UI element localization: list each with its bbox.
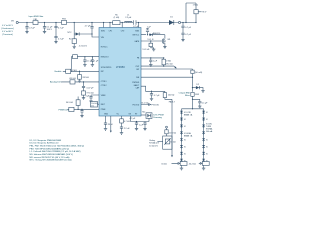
svg-text:PGOOD: PGOOD [152,105,160,107]
svg-text:10 kΩ: 10 kΩ [170,142,176,144]
svg-text:4 V to 60 V: 4 V to 60 V [2,24,13,27]
svg-text:4.7 µF: 4.7 µF [29,28,35,30]
svg-text:BEAM 1 A: BEAM 1 A [184,134,193,137]
svg-text:1 MΩ: 1 MΩ [166,60,171,62]
svg-text:PWM: PWM [101,109,106,111]
snubber network [186,3,196,23]
capacitor C1 4.7uF [26,23,28,31]
resistor R11 [82,91,86,95]
svg-text:0.47 µF: 0.47 µF [87,88,95,90]
svg-text:10 kΩ 1%: 10 kΩ 1% [149,145,158,147]
svg-text:FB1, FB2: Würth Elektronik 742: FB1, FB2: Würth Elektronik 74279220361 (… [30,145,85,148]
resistor R9 comp [121,116,123,131]
wire EN/UVLO [71,57,99,72]
wire FAULT [141,86,165,91]
svg-text:10.0 kΩ: 10.0 kΩ [169,132,176,134]
svg-text:51.1 kΩ: 51.1 kΩ [142,49,149,51]
svg-text:PWRGD: PWRGD [132,82,140,84]
LED string right [202,109,213,163]
svg-text:4.7 µF: 4.7 µF [154,95,160,97]
capacitor C11 VC filter [105,116,107,127]
svg-text:2.2 µH: 2.2 µH [125,17,131,19]
svg-text:4.3 Ω 1%: 4.3 Ω 1% [79,45,87,47]
capacitor C6 output stack [182,23,184,39]
resistor R12 90.9k [77,97,79,110]
svg-text:(50 mΩ): (50 mΩ) [195,72,203,74]
capacitor C10 4.7uF [151,91,153,97]
svg-text:Analog Dim: Analog Dim [50,81,61,84]
svg-text:CTRL1: CTRL1 [101,81,107,83]
transistor M1 [141,35,165,45]
resistor R13 box at CTRL2 [91,102,98,108]
capacitor C2 0.1uF [44,23,46,31]
capacitor C12 [136,122,138,128]
wire NTC branch [74,23,92,39]
svg-text:PWM Dim: PWM Dim [59,110,69,112]
svg-text:FB3: TDK MPZ1608S221ATAH0 (220: FB3: TDK MPZ1608S221ATAH0 (220 Ω) [30,147,70,150]
capacitor C8 1uF [150,58,152,63]
svg-text:D1, D2: Nexperia PMEG6020ER: D1, D2: Nexperia PMEG6020ER [30,139,62,142]
wire INTVCC [141,34,165,36]
svg-text:332 kΩ: 332 kΩ [82,77,89,79]
svg-text:SW1: SW1 [101,30,105,32]
op-amp U1 LT3950 [99,28,141,117]
wire SW2 rail right part [136,22,196,24]
svg-text:100 kΩ: 100 kΩ [168,94,175,96]
svg-text:Output EMI: Output EMI [179,91,190,94]
resistor RS sense [191,70,194,73]
svg-text:97.6 kΩ: 97.6 kΩ [87,93,94,95]
svg-text:LT3950: LT3950 [116,65,125,69]
svg-text:4.7 µF: 4.7 µF [185,27,191,29]
wire GND arrow below IC [110,116,112,131]
capacitor C4 4.7uF in VIN feed [91,23,93,35]
svg-text:SW2: SW2 [135,30,139,32]
resistor R8 NTC top [166,126,168,128]
capacitor C3 4.7uF stack [55,23,57,41]
wire VIN rail [18,22,133,24]
svg-text:4.7 µF: 4.7 µF [58,27,64,29]
svg-text:16 kΩ: 16 kΩ [161,163,167,165]
svg-text:VL: VL [184,154,186,156]
ferrite bead FB3 [191,92,194,96]
svg-text:Enable: Enable [55,71,63,73]
svg-text:499 kΩ: 499 kΩ [69,78,76,80]
input voltage annotation [1,24,14,36]
svg-text:CP2: CP2 [121,30,125,32]
svg-text:PGOOD: PGOOD [132,104,139,106]
resistor R10 pulldown [78,75,82,80]
resistor R15 40.2k [199,163,203,165]
svg-text:VIN: VIN [11,21,14,23]
svg-text:GND: GND [104,114,109,116]
svg-text:EN/UVLO: EN/UVLO [101,57,109,59]
svg-text:2.2 nF: 2.2 nF [124,128,130,130]
svg-text:4.7 µF: 4.7 µF [58,38,64,40]
resistor R3 [72,39,76,44]
svg-text:FAULT: FAULT [134,84,140,87]
svg-text:CP1: CP1 [109,30,113,32]
svg-text:INTVCC: INTVCC [132,35,139,37]
svg-text:VL: VL [184,147,186,149]
svg-text:NTCALUG: NTCALUG [149,142,159,145]
svg-text:(Continuous): (Continuous) [1,27,14,30]
svg-text:41.2 kΩ: 41.2 kΩ [141,102,148,104]
svg-text:Vishay: Vishay [149,140,155,142]
wire SS caps [131,116,150,122]
capacitor C17 [84,57,86,64]
svg-text:(1 kΩ): (1 kΩ) [114,17,120,19]
svg-text:M1: Infineon BSZ146N10LS5ATMA1: M1: Infineon BSZ146N10LS5ATMA1 (100 V) [30,153,74,156]
wire FB [141,57,164,59]
svg-text:4 V to 80 V: 4 V to 80 V [2,30,13,33]
resistor R4 divider [162,59,165,65]
svg-text:BEAM 1 A: BEAM 1 A [184,114,193,117]
svg-text:1%: 1% [91,105,94,107]
wire FAULT net down [171,99,173,155]
wire OVP [141,65,174,67]
LED string left [180,109,193,163]
svg-text:D3, D4: Nexperia BZX84-C10: D3, D4: Nexperia BZX84-C10 [30,142,60,145]
wire VIN pin [92,34,99,37]
svg-text:Filter: Filter [185,94,190,97]
wire SW stubs [104,23,139,28]
svg-text:VL: VL [206,147,208,149]
resistor R7 100k [163,93,166,98]
svg-text:VL: VL [206,119,208,121]
svg-text:0.1 µF: 0.1 µF [202,102,208,104]
wire PGOOD [141,104,151,106]
svg-text:90.9 kΩ: 90.9 kΩ [66,102,73,104]
resistor R14 16k [172,163,181,165]
capacitor C15 [81,109,83,114]
svg-text:40.2 kΩ: 40.2 kΩ [189,163,196,165]
svg-text:VL: VL [184,126,186,128]
transistor M2 PWM [141,114,146,116]
svg-text:170 Ω: 170 Ω [193,5,199,7]
wire string rail [182,108,204,110]
svg-text:NTC: Vishay NTCS0603E3103JMT (: NTC: Vishay NTCS0603E3103JMT (10 kΩ) [30,160,72,162]
capacitor C18 [91,57,93,64]
svg-text:4.7 kΩ: 4.7 kΩ [124,121,130,123]
capacitor C9 0.1uF [193,99,200,104]
svg-text:CTRL2: CTRL2 [101,85,107,87]
svg-text:28.0 kΩ: 28.0 kΩ [166,63,173,65]
wire ISP [141,69,193,70]
svg-text:VL: VL [184,119,186,121]
svg-text:(Transient): (Transient) [2,33,13,36]
svg-text:VL: VL [206,112,208,114]
diode D4 [150,33,153,36]
svg-text:INTVCC: INTVCC [101,46,108,48]
svg-text:GATE: GATE [134,40,140,43]
capacitor C16 VREF bypass [91,95,99,100]
capacitor C14 0.47uF series RC [83,82,85,91]
svg-text:4.7 µF: 4.7 µF [85,25,91,27]
wire to string rail [192,96,194,109]
capacitor C5 series coupling [133,20,136,24]
svg-text:VL: VL [206,154,208,156]
zener D5 [198,11,201,13]
svg-text:M2: onsemi 2N7002LT1G (60 V, 1: M2: onsemi 2N7002LT1G (60 V, 115 mA) [30,156,70,159]
node VOUT terminal [178,21,180,23]
svg-text:VL: VL [206,140,208,142]
svg-text:500 mA: 500 mA [206,130,213,133]
svg-text:4.7 µF: 4.7 µF [185,34,191,36]
wire ISN [141,74,193,92]
resistor R6 gate pulldown [151,41,154,48]
svg-text:VL: VL [184,140,186,142]
svg-text:Dimming: Dimming [153,117,162,119]
svg-text:100 V: 100 V [47,29,53,31]
svg-text:96 V: 96 V [202,12,207,14]
thermistor NTC box [163,136,172,149]
svg-text:1 MΩ: 1 MΩ [72,70,77,72]
capacitor C7 1uF [146,29,148,35]
svg-text:4.7 µF: 4.7 µF [129,118,135,120]
svg-text:NTC: NTC [68,32,73,34]
svg-text:28 nF: 28 nF [108,124,114,126]
notes text block [30,139,85,162]
svg-text:Input EMI Filter: Input EMI Filter [29,15,44,18]
zener D2 clamp [193,86,204,89]
svg-text:SYNC/SPRD: SYNC/SPRD [101,67,112,69]
capacitor C13 [144,122,146,128]
svg-text:L1: Coilcraft XAL7050-222MEB (: L1: Coilcraft XAL7050-222MEB (2.2 µH, 14… [30,150,81,153]
svg-text:BAS516: BAS516 [153,32,161,35]
